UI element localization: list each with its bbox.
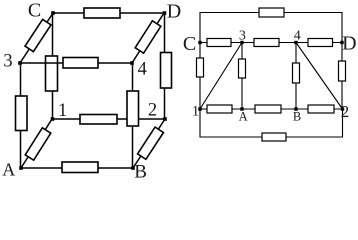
- resistor B-2 (right diagram): [308, 105, 334, 113]
- resistor A-B (right diagram): [255, 105, 281, 113]
- resistor 4-B (right diagram): [293, 63, 300, 83]
- wire B-2 diagonal (left cube): [133, 119, 165, 168]
- node 2: [163, 117, 167, 121]
- node D: [163, 11, 167, 15]
- node 3: [18, 61, 22, 65]
- resistor on top loop C-D (right diagram): [259, 8, 284, 17]
- svg-text:B: B: [293, 110, 301, 124]
- node 4: [130, 61, 134, 65]
- svg-text:D: D: [167, 1, 181, 23]
- resistor on 4-D diagonal (left cube): [135, 21, 161, 53]
- node 3 (right diagram): [240, 41, 243, 44]
- node D (right diagram): [340, 41, 343, 44]
- wire bottom loop 1-2 (right diagram): [200, 109, 343, 137]
- node C (right diagram): [198, 41, 201, 44]
- svg-text:2: 2: [341, 102, 350, 121]
- node B: [131, 166, 135, 170]
- wire B-4 vertical (left cube): [132, 63, 134, 168]
- resistor 3-A (right diagram): [239, 59, 246, 78]
- resistor 4-D (right diagram): [308, 39, 333, 47]
- svg-text:3: 3: [239, 29, 246, 44]
- wire diagonal 3 to 1 (right diagram): [200, 43, 242, 110]
- wire 1-2 (left cube): [52, 118, 165, 120]
- wire diagonal 4 to 2 (right diagram): [296, 43, 343, 110]
- node 1 (right diagram): [198, 107, 201, 110]
- svg-text:3: 3: [3, 51, 12, 71]
- node 1: [51, 117, 55, 121]
- node A: [19, 166, 23, 170]
- wire C-D top (left cube): [53, 12, 164, 14]
- resistor on A-B (left cube): [62, 162, 98, 173]
- wire A-B bottom (left cube): [21, 167, 133, 169]
- svg-text:C: C: [183, 33, 196, 55]
- wire A-1 diagonal (left cube): [21, 119, 52, 168]
- resistor on 3-4 (left cube): [63, 58, 98, 69]
- svg-text:A: A: [239, 110, 248, 124]
- resistor 1-A (right diagram): [207, 105, 232, 113]
- svg-text:1: 1: [58, 101, 67, 121]
- resistor on D-2 (left cube): [161, 53, 172, 89]
- resistor C-3 (right diagram): [207, 39, 231, 47]
- wire 3-A vertical (right diagram): [241, 43, 243, 110]
- node B (right diagram): [294, 107, 297, 110]
- svg-text:1: 1: [192, 104, 200, 120]
- wire 4-B vertical (right diagram): [295, 43, 297, 110]
- node 2 (right diagram): [341, 107, 344, 110]
- wire 3-C diagonal (left cube): [20, 13, 53, 63]
- resistor on bottom loop 1-2 (right diagram): [262, 133, 286, 141]
- resistor on A-3 (left cube): [16, 96, 28, 131]
- wire D-2 vertical (right diagram): [341, 43, 343, 110]
- svg-text:A: A: [2, 160, 15, 180]
- svg-text:C: C: [28, 0, 41, 21]
- resistor D-2 (right diagram): [339, 61, 346, 81]
- svg-text:D: D: [342, 33, 356, 55]
- wire lower rail 1-A-B-2 (right diagram): [200, 108, 343, 110]
- node C: [51, 11, 55, 15]
- wire A-3 left vertical (left cube): [20, 63, 22, 168]
- resistor 3-4 (right diagram): [254, 39, 279, 47]
- resistor on C-D (left cube): [84, 8, 120, 18]
- svg-text:4: 4: [294, 29, 301, 44]
- resistor C-1 (right diagram): [197, 58, 204, 77]
- wire 4-D diagonal (left cube): [132, 13, 164, 63]
- resistor on 1-2 (left cube): [80, 115, 117, 125]
- wire 3-4 (left cube, drawn over C-1 resistor): [20, 62, 132, 64]
- svg-text:4: 4: [138, 60, 147, 80]
- resistor on B-2 diagonal (left cube): [138, 127, 164, 159]
- wire top loop C-D (right diagram): [200, 13, 342, 43]
- wire upper rail C-3-4-D (right diagram): [200, 42, 342, 44]
- resistor on B-4 (left cube): [127, 91, 139, 126]
- wire C-1 vertical (left cube): [52, 13, 54, 119]
- resistor on A-1 diagonal (left cube): [25, 128, 51, 160]
- wire C-1 vertical (right diagram): [199, 43, 201, 110]
- resistor on C-1 (left cube): [46, 56, 58, 91]
- node 4 (right diagram): [294, 41, 297, 44]
- node A (right diagram): [240, 107, 243, 110]
- resistor on 3-C diagonal (left cube): [25, 19, 51, 51]
- svg-text:B: B: [134, 162, 147, 183]
- svg-text:2: 2: [148, 101, 157, 121]
- wire D-2 vertical (left cube): [164, 13, 166, 119]
